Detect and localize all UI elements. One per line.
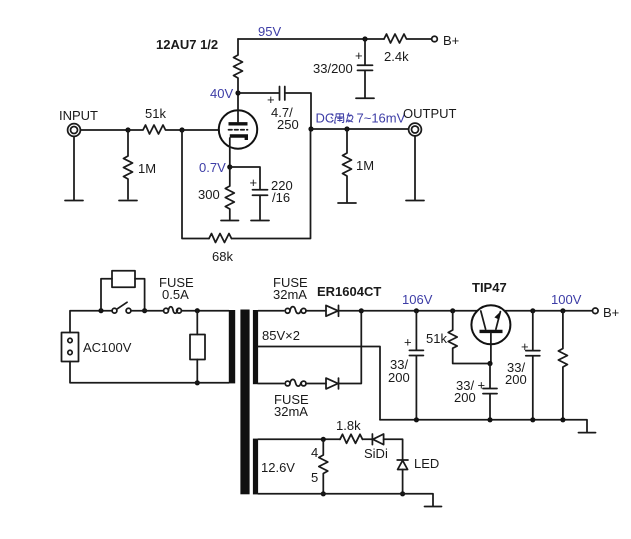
svg-text:250: 250 [277,117,299,132]
svg-text:5: 5 [311,470,318,485]
ground at 300 [221,220,239,222]
wire LED to bottom [402,470,404,494]
svg-text:7~16mV: 7~16mV [357,111,406,126]
resistor 1M (output) [343,129,375,202]
wire node B to grid [182,129,219,131]
node top rail cap junction [362,36,367,41]
label ER1604CT [317,284,381,299]
label 12.6V [261,460,295,475]
svg-text:2.4k: 2.4k [384,49,409,64]
wire cathode lead [229,138,231,167]
diode SiDi [364,434,388,461]
terminal B+ (top) [432,33,460,48]
svg-text:51k: 51k [145,106,166,121]
svg-text:32mA: 32mA [274,404,308,419]
wire 12.6V bottom [258,494,433,506]
wire 1.8k to SiDi [363,438,373,440]
plug AC100V [62,333,132,362]
wire D1 to rail [339,310,362,312]
wire secondary bottom [258,383,284,385]
svg-text:68k: 68k [212,249,233,264]
svg-text:AC100V: AC100V [83,340,132,355]
svg-text:+: + [404,335,412,350]
svg-text:B+: B+ [443,33,459,48]
node C1 top [414,308,419,313]
capacitor 220/16 [230,167,293,220]
wire primary bottom [70,362,229,383]
output jack OUTPUT [403,106,457,136]
node 40V plate node [210,86,241,101]
svg-text:100V: 100V [551,292,582,307]
svg-text:1M: 1M [138,161,156,176]
wire SiDi to LED [384,439,403,459]
node C3 bottom [487,417,492,422]
wire line box to bottom [196,360,198,383]
svg-text:0.7V: 0.7V [199,160,226,175]
resistor 1M (input) [124,130,157,199]
label DC offset (DC leak 7~16mV) [316,111,406,126]
ground at output jack [406,137,424,201]
wire switch to fuse [131,310,164,312]
diode LED [397,456,439,471]
node base junction [487,361,492,366]
ground at input 1M [119,200,137,202]
ground psu [579,432,596,434]
tube grid (dashed) [229,129,248,131]
svg-text:300: 300 [198,187,220,202]
wire output line [311,128,408,130]
fuse FUSE 0.5A [159,275,194,313]
node LED bottom [400,491,405,496]
svg-text:+: + [521,339,529,354]
ground 12.6V [425,506,442,508]
svg-text:106V: 106V [402,292,433,307]
svg-text:200: 200 [454,390,476,405]
node after switch [142,308,147,313]
svg-text:33/200: 33/200 [313,61,353,76]
fuse FUSE 32mA (top) [273,275,308,313]
node primary top left [98,308,103,313]
wire 100V rail [505,292,592,311]
wire fuse to diode D2 [306,383,326,385]
svg-text:+: + [250,175,258,190]
node B (grid node) [179,127,184,132]
diode D2 [326,378,339,389]
node A [125,127,130,132]
transformer core [240,310,249,495]
fuse FUSE 32mA (bottom) [274,379,309,419]
svg-text:4: 4 [311,445,318,460]
transformer secondary 12.6V winding [253,439,258,495]
wire 12.6V top [258,438,340,440]
svg-text:85V×2: 85V×2 [262,328,300,343]
svg-text:12.6V: 12.6V [261,460,295,475]
node C2 top [530,308,535,313]
svg-text:51k: 51k [426,331,447,346]
resistor bleeder [558,311,567,420]
wire feedback left leg [182,130,209,239]
svg-text:OUTPUT: OUTPUT [403,106,457,121]
wire input jack to node A [81,129,128,131]
capacitor 33/200 C3 (base) [454,364,497,420]
resistor 51k [128,106,182,134]
node primary bottom [195,380,200,385]
node output junction [308,126,313,131]
wire plug top to switch [70,311,112,333]
transformer secondary 85V winding [253,310,258,384]
node 51k top [450,308,455,313]
wire psu ground rail [380,420,587,432]
resistor 300 cathode [198,167,234,220]
ground at 33/200 (top) [356,97,374,99]
node C1 bottom [414,417,419,422]
resistor heater 4-5 [311,439,328,494]
label 85Vx2 [262,328,300,343]
wire secondary top [258,310,284,312]
wire fuse to transformer [181,310,228,312]
svg-text:32mA: 32mA [273,287,307,302]
svg-text:ER1604CT: ER1604CT [317,284,381,299]
terminal B+ (psu) [593,305,620,320]
capacitor 4.7/250 coupling [238,87,311,133]
node primary top right [195,308,200,313]
wire to surge box [101,279,112,311]
wire plate lead [237,93,239,122]
wire top rail 95V [238,24,384,39]
input jack INPUT [59,108,98,136]
node rectifier junction [359,308,364,313]
ground at input jack [65,137,83,201]
resistor 1.8k [336,418,363,443]
ground at 220/16 [251,220,269,222]
transistor TIP47 Q1 [471,280,510,364]
node 0.7V cathode node [199,160,232,175]
tube cathode [230,136,247,140]
wire feedback right leg [232,129,311,239]
node heater bottom [321,491,326,496]
wire 106V rail [361,292,477,311]
transformer primary winding [229,310,235,383]
svg-text:200: 200 [388,370,410,385]
wire surge box to line [135,279,145,311]
node output 1M junction [344,126,349,131]
resistor 51k (base bleed) [426,311,490,364]
capacitor 33/200 C2 [505,311,540,420]
svg-text:12AU7 1/2: 12AU7 1/2 [156,37,218,52]
wire center tap [258,347,380,420]
tube plate [229,122,248,125]
tube 12AU7 envelope U1 [219,110,257,148]
wire down to line box [196,311,198,335]
svg-text:INPUT: INPUT [59,108,98,123]
svg-text:/16: /16 [272,190,290,205]
svg-text:+: + [355,48,363,63]
svg-text:200: 200 [505,372,527,387]
svg-text:SiDi: SiDi [364,446,388,461]
switch SW [112,302,131,313]
svg-text:1.8k: 1.8k [336,418,361,433]
ground at output 1M [338,202,356,204]
wire fuse to diode D1 [306,310,326,312]
diode D1 [326,305,339,316]
resistor 68k (feedback) [209,234,233,265]
node bleeder top [560,308,565,313]
resistor plate load [234,39,243,93]
capacitor 33/200 C1 [388,311,423,420]
svg-text:+: + [478,378,486,393]
node bleeder bottom [560,417,565,422]
svg-text:40V: 40V [210,86,233,101]
svg-text:95V: 95V [258,24,281,39]
svg-text:B+: B+ [603,305,619,320]
box (line filter) [190,335,205,360]
wire D2 up to rail [339,311,362,384]
node heater top [321,437,326,442]
svg-text:0.5A: 0.5A [162,287,189,302]
label 12AU7 1/2 [156,37,218,52]
node C2 bottom [530,417,535,422]
box (switch snubber) [112,271,135,288]
svg-text:LED: LED [414,456,439,471]
resistor 2.4k [384,34,432,64]
svg-text:1M: 1M [356,158,374,173]
capacitor 33/200 (top) [313,39,373,98]
svg-text:TIP47: TIP47 [472,280,507,295]
